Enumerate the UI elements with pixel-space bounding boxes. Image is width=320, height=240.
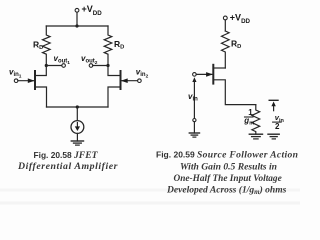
wire gate Q2 xyxy=(122,80,138,82)
ground GND4 xyxy=(268,133,279,135)
transistor Q2 bar xyxy=(120,71,122,89)
resistor RD2 xyxy=(104,26,112,66)
arrow gate Q3 xyxy=(206,72,213,77)
svg-text:Differential Amplifier: Differential Amplifier xyxy=(17,161,118,172)
node junction drain2/vout2 xyxy=(106,64,109,67)
wire VDD down xyxy=(76,12,78,26)
terminal vin1 circle xyxy=(14,79,18,83)
svg-text:Developed Across (1/gm) ohms: Developed Across (1/gm) ohms xyxy=(166,184,287,196)
wire drain Q1 xyxy=(36,66,47,76)
svg-text:Source Follower Action: Source Follower Action xyxy=(197,150,298,161)
arrow gate Q2 xyxy=(121,78,128,83)
svg-text:One-Half The Input Voltage: One-Half The Input Voltage xyxy=(174,174,282,184)
arrow vin up xyxy=(192,77,196,82)
svg-text:JFET: JFET xyxy=(73,150,99,161)
svg-text:Fig. 20.58: Fig. 20.58 xyxy=(34,150,73,160)
wire bottom rail xyxy=(47,106,109,108)
arrow vin/2 up arrow xyxy=(273,104,275,111)
wire top rail xyxy=(46,25,108,27)
+VDD terminal T1 xyxy=(75,8,79,12)
arrow gate Q1 xyxy=(28,78,35,83)
svg-text:Fig. 20.59: Fig. 20.59 xyxy=(156,150,195,160)
wire tail down xyxy=(76,107,78,121)
resistor RD3 xyxy=(222,31,230,68)
wire VDD2 down xyxy=(224,20,226,31)
wire I1 to ground xyxy=(76,133,78,141)
wire drain Q2 xyxy=(108,66,119,76)
wire vin down xyxy=(193,81,195,119)
wire drain Q3 xyxy=(214,67,225,69)
terminal vin circle xyxy=(193,73,197,77)
ground GND2 xyxy=(189,132,199,134)
svg-text:2: 2 xyxy=(275,122,280,131)
terminal vout2 circle xyxy=(89,64,93,68)
scan streak band 1 xyxy=(0,189,300,192)
svg-text:With Gain 0.5 Results in: With Gain 0.5 Results in xyxy=(180,161,277,172)
terminal vin2 circle xyxy=(138,79,142,83)
wire to GND2 xyxy=(193,122,195,133)
transistor Q3 bar xyxy=(212,65,214,84)
terminal mid circle xyxy=(193,119,196,122)
+VDD terminal T2 xyxy=(223,16,227,20)
node junction tail xyxy=(76,105,79,108)
ground GND1 xyxy=(71,140,83,142)
arrow vin/2 top bar xyxy=(269,99,278,101)
wire gate Q3 xyxy=(196,73,212,75)
node junction drain1/vout1 xyxy=(45,64,48,67)
wire source Q3 xyxy=(214,80,256,105)
wire gate Q1 xyxy=(18,80,34,82)
wire source Q1 xyxy=(36,87,47,107)
wire source Q2 xyxy=(108,87,119,107)
resistor Rgm 1/gm xyxy=(252,105,260,135)
fraction bar vin/2 xyxy=(273,121,282,123)
terminal vout1 circle xyxy=(62,64,66,68)
node junction at rail xyxy=(75,24,78,27)
scan streak band 2 xyxy=(0,202,300,205)
resistor RD1 xyxy=(43,26,51,66)
wire vout1 tap xyxy=(46,65,61,67)
current source I1 circle xyxy=(71,121,84,134)
ground GND3 xyxy=(249,133,262,135)
transistor Q1 bar xyxy=(34,71,36,89)
wire vout2 tap xyxy=(93,65,108,67)
fraction bar 1/gm xyxy=(245,116,254,118)
current source I1 arrow xyxy=(76,123,78,128)
